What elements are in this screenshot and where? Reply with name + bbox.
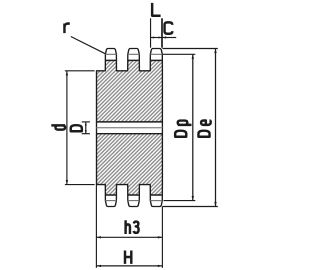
dimension C : dim line, arrow, label (162, 37, 176, 39)
sprocket body section hatching (97, 49, 163, 207)
centerline (97, 127, 163, 129)
tooth pitch lines (grey) and root-depth lines (dark) (105, 53, 116, 55)
dimension L : extension lines, dim line, arrows, label (150, 18, 152, 47)
sprocket silhouette outline (97, 49, 163, 207)
dimension D : tick extension lines, dim line, arrows, label (82, 121, 90, 123)
dimension Dp : extension lines, dim line, arrows, label (162, 53, 195, 55)
dimension d : extension lines, dim line, arrows, label (65, 70, 95, 72)
bore lines (97, 121, 163, 123)
dimension De : extension lines, dim line, arrows, label (162, 48, 217, 50)
leader line r and label (71, 37, 106, 54)
dimension H : dim line, arrows, label (96, 265, 162, 267)
dimension h3 : extension lines, dim line, arrows, label (95, 185, 97, 268)
